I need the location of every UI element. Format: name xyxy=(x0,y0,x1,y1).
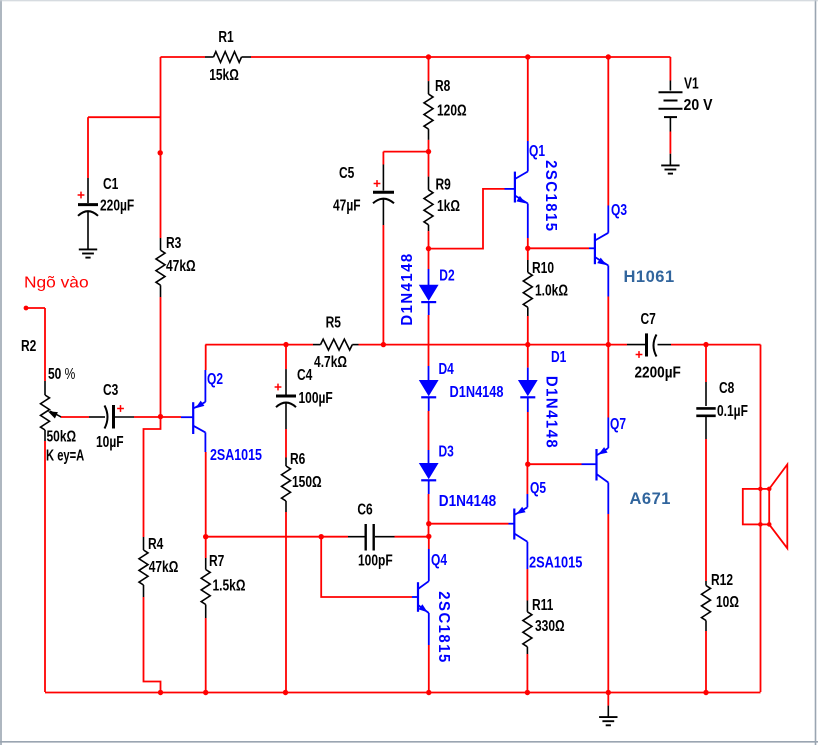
svg-text:R8: R8 xyxy=(435,76,450,94)
svg-text:2SA1015: 2SA1015 xyxy=(210,447,262,465)
node R9 D2 junction xyxy=(426,246,431,251)
diode D1 xyxy=(519,345,567,450)
wire pot bottom to ground rail xyxy=(44,441,46,692)
wire D2 to D4 xyxy=(428,315,430,366)
svg-text:K ey=A: K ey=A xyxy=(46,445,84,464)
wire mid rail left xyxy=(205,344,313,346)
wire top to R8 xyxy=(428,57,430,81)
node C4 top xyxy=(283,342,288,347)
svg-text:150Ω: 150Ω xyxy=(292,472,322,490)
svg-text:47µF: 47µF xyxy=(333,196,361,214)
node rail dots xyxy=(158,690,709,695)
resistor R9 xyxy=(424,175,460,231)
wire base node to Q2 xyxy=(161,416,182,418)
svg-text:V1: V1 xyxy=(684,74,699,92)
wire C1 branch xyxy=(88,117,161,178)
svg-text:C3: C3 xyxy=(103,380,118,398)
svg-text:R10: R10 xyxy=(532,258,554,276)
node D1 Q5 Q7 junction xyxy=(525,462,530,467)
resistor R4 xyxy=(139,534,178,597)
svg-text:R1: R1 xyxy=(218,27,233,45)
resistor R5 xyxy=(313,313,359,371)
svg-text:R11: R11 xyxy=(532,595,553,613)
svg-text:D1N4148: D1N4148 xyxy=(439,493,496,510)
capacitor C6 xyxy=(348,500,395,569)
svg-text:10µF: 10µF xyxy=(96,432,124,450)
wire Q2 collector down xyxy=(205,452,207,558)
svg-text:1.5kΩ: 1.5kΩ xyxy=(213,576,246,594)
svg-text:10Ω: 10Ω xyxy=(716,592,739,610)
node C5 bottom xyxy=(381,342,386,347)
svg-text:D1N4148: D1N4148 xyxy=(542,376,560,449)
node R8 R9 junction xyxy=(426,149,431,154)
wire R4 branch xyxy=(144,417,161,537)
svg-text:50 %: 50 % xyxy=(48,364,76,382)
wire C3 to base node xyxy=(134,416,161,418)
node junction left column xyxy=(158,150,163,155)
wire node to Q7 base xyxy=(528,463,582,465)
capacitor C5 xyxy=(333,163,394,225)
label H1061 xyxy=(624,268,675,286)
speaker xyxy=(743,465,788,549)
transistor Q2 xyxy=(181,369,262,464)
svg-text:220µF: 220µF xyxy=(100,196,135,214)
diode D4 xyxy=(420,359,504,411)
svg-text:2200µF: 2200µF xyxy=(635,365,681,382)
svg-text:Q3: Q3 xyxy=(611,200,627,218)
potentiometer R2 xyxy=(21,336,84,464)
wire R10 bottom xyxy=(527,316,529,345)
ground C1 xyxy=(79,249,97,257)
wire Q1 emitter down xyxy=(527,238,529,248)
wire wiper to C3 xyxy=(61,416,89,418)
resistor R12 xyxy=(702,570,739,631)
svg-text:47kΩ: 47kΩ xyxy=(149,557,179,575)
svg-text:330Ω: 330Ω xyxy=(535,616,565,634)
wire top rail left xyxy=(161,56,206,58)
diode D3 xyxy=(420,442,496,511)
node C6 line junction xyxy=(319,534,324,539)
battery V1 xyxy=(659,57,713,165)
svg-text:100µF: 100µF xyxy=(299,388,334,406)
wire to Q1 base xyxy=(429,189,505,249)
wire mid rail right xyxy=(359,344,628,346)
wire D4 to D3 xyxy=(428,411,430,450)
wire top rail right xyxy=(251,56,670,58)
svg-text:C4: C4 xyxy=(297,365,312,383)
capacitor C7 xyxy=(627,309,681,382)
svg-text:D4: D4 xyxy=(439,359,454,377)
wire Q4 collector up xyxy=(428,537,430,549)
svg-text:Q1: Q1 xyxy=(529,141,545,159)
wire Q4 base branch xyxy=(321,537,412,597)
wire left column R3 top xyxy=(160,57,162,238)
node top rail center xyxy=(426,54,431,59)
svg-text:R12: R12 xyxy=(711,570,733,588)
svg-text:C5: C5 xyxy=(339,163,354,181)
svg-text:R5: R5 xyxy=(326,313,341,331)
svg-text:C7: C7 xyxy=(641,309,656,327)
svg-text:2SC1815: 2SC1815 xyxy=(435,591,453,663)
wire Q2 emitter up xyxy=(205,345,207,370)
svg-text:D2: D2 xyxy=(439,266,454,284)
wire R11 to ground rail xyxy=(526,654,528,692)
transistor Q5 xyxy=(509,478,583,572)
wire emitter node to Q3 base xyxy=(528,247,589,249)
wire C6 right xyxy=(395,536,429,538)
ground main xyxy=(599,693,617,726)
svg-text:R4: R4 xyxy=(148,534,163,552)
label Ngo vao input xyxy=(24,274,89,291)
svg-text:1.0kΩ: 1.0kΩ xyxy=(535,281,568,299)
wire Q5 emitter up xyxy=(526,464,528,494)
wire R6 to ground rail xyxy=(285,512,287,692)
svg-text:Q2: Q2 xyxy=(207,369,223,387)
wire R7 to ground rail xyxy=(205,618,207,692)
capacitor C1 xyxy=(78,174,135,250)
node base junction xyxy=(158,414,163,419)
wire C4 to R6 xyxy=(285,429,287,458)
node R10 mid rail xyxy=(525,342,530,347)
node Q5 base junction xyxy=(426,521,431,526)
node C8 top xyxy=(703,342,708,347)
svg-text:R9: R9 xyxy=(436,175,451,193)
svg-text:D3: D3 xyxy=(439,442,454,460)
node mid rail Q3Q7 xyxy=(606,342,611,347)
wire junction to C5 xyxy=(383,152,428,165)
capacitor C3 xyxy=(89,380,134,450)
wire R4 to ground rail xyxy=(144,597,161,692)
svg-text:R2: R2 xyxy=(21,336,36,354)
resistor R11 xyxy=(523,595,565,654)
svg-text:2SA1015: 2SA1015 xyxy=(529,554,582,572)
wire Q5 collector to R11 xyxy=(526,569,528,601)
svg-text:R3: R3 xyxy=(166,233,181,251)
wire C5 bottom xyxy=(382,225,384,345)
wire R9 bottom xyxy=(428,231,430,249)
wire R12 to ground rail xyxy=(705,631,707,692)
wire to Q5 base xyxy=(429,523,509,525)
wire Q3 collector to rail xyxy=(607,57,609,206)
node Q3 collector rail xyxy=(606,54,611,59)
svg-text:120Ω: 120Ω xyxy=(437,101,467,119)
ground V1 xyxy=(661,165,679,173)
node Q1 emitter junction xyxy=(525,246,530,251)
wire Q7 collector to ground rail xyxy=(607,514,609,692)
node Q2 collector junction xyxy=(203,534,208,539)
wire ground rail xyxy=(45,692,761,694)
svg-text:1kΩ: 1kΩ xyxy=(437,196,460,214)
svg-text:Q4: Q4 xyxy=(431,550,447,568)
svg-text:H1061: H1061 xyxy=(624,268,675,286)
svg-text:R7: R7 xyxy=(209,551,224,569)
resistor R6 xyxy=(282,449,322,512)
label A671 xyxy=(630,490,671,508)
svg-text:2SC1815: 2SC1815 xyxy=(542,160,560,232)
svg-text:0.1µF: 0.1µF xyxy=(717,401,748,419)
svg-text:D1N4148: D1N4148 xyxy=(399,252,417,325)
transistor Q1 xyxy=(505,141,560,238)
svg-text:47kΩ: 47kΩ xyxy=(166,256,196,274)
diode D2 xyxy=(399,249,455,326)
svg-text:4.7kΩ: 4.7kΩ xyxy=(314,352,347,370)
wire C8 to R12 xyxy=(705,439,707,581)
svg-text:100pF: 100pF xyxy=(358,551,393,569)
node input terminal xyxy=(24,306,29,311)
resistor R8 xyxy=(424,76,467,140)
svg-text:C8: C8 xyxy=(719,378,734,396)
transistor Q4 xyxy=(412,549,452,664)
svg-text:Q7: Q7 xyxy=(610,414,626,432)
wire Q3 emitter down xyxy=(607,297,609,345)
capacitor C4 xyxy=(275,345,333,429)
svg-text:Q5: Q5 xyxy=(530,478,546,496)
node Q1 collector rail xyxy=(525,54,530,59)
wire mid line to C6 xyxy=(206,536,348,538)
wire C7 right to speaker rail xyxy=(671,344,761,346)
wire Q1 collector to rail xyxy=(527,57,529,141)
svg-text:Ngõ vào: Ngõ vào xyxy=(24,274,89,291)
node C6 right junction xyxy=(426,534,431,539)
wire input to potentiometer xyxy=(26,308,45,381)
wire right rail xyxy=(760,345,762,692)
transistor Q7 xyxy=(582,414,627,514)
resistor R1 xyxy=(205,27,251,83)
svg-text:15kΩ: 15kΩ xyxy=(209,65,239,83)
resistor R10 xyxy=(523,248,568,316)
wire Q7 emitter up xyxy=(607,345,609,418)
resistor R3 xyxy=(156,233,196,297)
svg-text:C6: C6 xyxy=(357,500,372,518)
wire Q4 emitter to ground rail xyxy=(428,645,430,692)
svg-text:R6: R6 xyxy=(290,449,305,467)
wire D1 to Q5 node xyxy=(527,412,529,464)
svg-text:D1: D1 xyxy=(551,347,566,365)
svg-text:A671: A671 xyxy=(630,490,671,508)
svg-text:D1N4148: D1N4148 xyxy=(450,384,504,402)
capacitor C8 xyxy=(696,345,748,439)
svg-text:C1: C1 xyxy=(103,174,118,192)
resistor R7 xyxy=(201,551,245,618)
wire R3 bottom to base node xyxy=(160,297,162,417)
svg-text:20 V: 20 V xyxy=(684,96,713,114)
wire D3 down xyxy=(428,494,430,537)
transistor Q3 xyxy=(589,200,627,296)
wire R8 to R9 xyxy=(428,140,430,177)
svg-text:50kΩ: 50kΩ xyxy=(47,427,77,445)
